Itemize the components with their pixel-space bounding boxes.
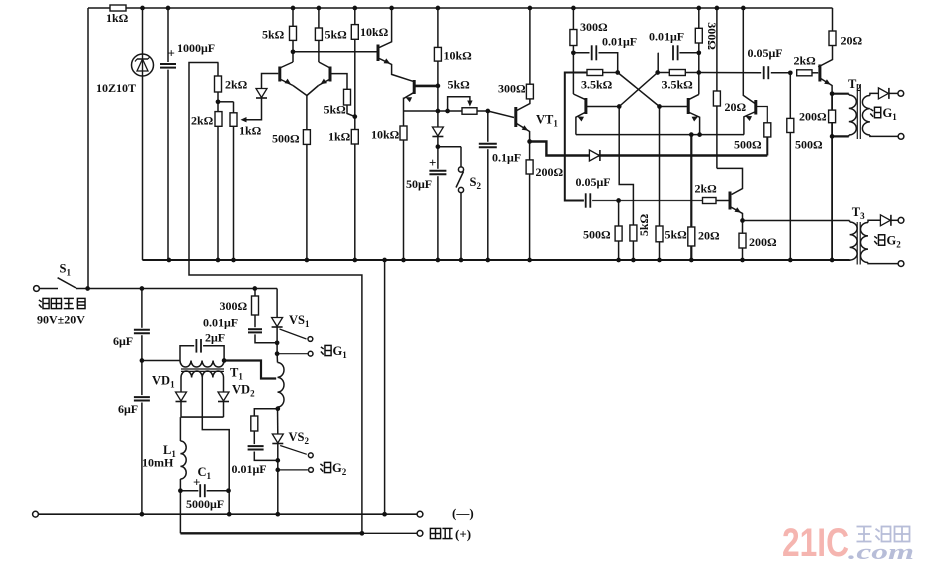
svg-text:10kΩ: 10kΩ: [371, 128, 400, 142]
svg-text:0.01μF: 0.01μF: [203, 316, 238, 330]
svg-text:6μF: 6μF: [118, 402, 138, 416]
svg-text:1kΩ: 1kΩ: [239, 124, 262, 138]
svg-text:6μF: 6μF: [113, 334, 133, 348]
svg-text:500Ω: 500Ω: [272, 132, 300, 146]
svg-text:50μF: 50μF: [406, 177, 432, 191]
svg-text:10mH: 10mH: [142, 456, 174, 470]
svg-text:2kΩ: 2kΩ: [225, 78, 248, 92]
svg-text:20Ω: 20Ω: [725, 100, 747, 114]
svg-text:300Ω: 300Ω: [705, 22, 719, 50]
svg-text:+: +: [168, 46, 175, 61]
svg-text:5kΩ: 5kΩ: [262, 28, 285, 42]
svg-text:0.01μF: 0.01μF: [232, 462, 267, 476]
svg-text:3.5kΩ: 3.5kΩ: [662, 78, 694, 92]
svg-text:20Ω: 20Ω: [698, 229, 720, 243]
svg-text:20Ω: 20Ω: [841, 34, 863, 48]
svg-text:200Ω: 200Ω: [536, 165, 564, 179]
svg-text:500Ω: 500Ω: [795, 138, 823, 152]
svg-text:10kΩ: 10kΩ: [360, 25, 389, 39]
svg-text:5kΩ: 5kΩ: [637, 213, 651, 236]
svg-text:(—): (—): [452, 506, 474, 521]
svg-text:90V±20V: 90V±20V: [37, 313, 85, 327]
svg-text:(+): (+): [455, 527, 471, 542]
svg-text:1kΩ: 1kΩ: [328, 130, 351, 144]
svg-text:+: +: [429, 155, 436, 170]
svg-text:0.01μF: 0.01μF: [602, 35, 637, 49]
svg-text:5000μF: 5000μF: [186, 497, 224, 511]
svg-text:2μF: 2μF: [205, 331, 225, 345]
svg-text:21IC: 21IC: [782, 521, 849, 565]
svg-text:500Ω: 500Ω: [734, 138, 762, 152]
svg-text:0.1μF: 0.1μF: [492, 151, 521, 165]
svg-text:200Ω: 200Ω: [749, 235, 777, 249]
svg-text:0.05μF: 0.05μF: [576, 175, 611, 189]
svg-text:200Ω: 200Ω: [799, 110, 827, 124]
svg-text:2kΩ: 2kΩ: [794, 54, 817, 68]
svg-text:5kΩ: 5kΩ: [325, 28, 348, 42]
svg-text:5kΩ: 5kΩ: [665, 228, 688, 242]
svg-text:0.01μF: 0.01μF: [649, 30, 684, 44]
svg-text:0.05μF: 0.05μF: [748, 46, 783, 60]
svg-text:300Ω: 300Ω: [498, 82, 526, 96]
svg-text:2kΩ: 2kΩ: [191, 114, 214, 128]
svg-text:+: +: [193, 475, 200, 490]
svg-text:300Ω: 300Ω: [220, 299, 248, 313]
svg-text:.com: .com: [848, 539, 914, 564]
svg-text:10Z10T: 10Z10T: [96, 81, 136, 95]
svg-text:5kΩ: 5kΩ: [448, 78, 471, 92]
svg-text:300Ω: 300Ω: [580, 20, 608, 34]
svg-text:10kΩ: 10kΩ: [444, 49, 473, 63]
svg-text:3.5kΩ: 3.5kΩ: [581, 78, 613, 92]
svg-text:1kΩ: 1kΩ: [106, 11, 129, 25]
svg-text:2kΩ: 2kΩ: [695, 182, 718, 196]
svg-text:500Ω: 500Ω: [583, 228, 611, 242]
svg-text:1000μF: 1000μF: [177, 41, 215, 55]
svg-text:5kΩ: 5kΩ: [324, 103, 347, 117]
